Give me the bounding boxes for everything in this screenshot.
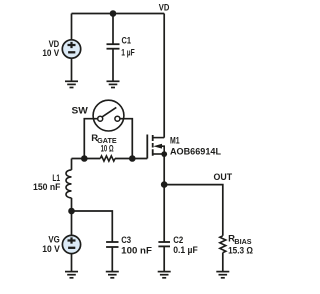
inductor L1 <box>66 170 72 198</box>
svg-text:150 nF: 150 nF <box>33 182 61 193</box>
wire C2 to ground <box>163 246 165 271</box>
transistor M1 body arrow <box>153 144 162 149</box>
wire node to C3 <box>72 211 113 242</box>
wire gate rail right <box>115 158 147 160</box>
voltage source VD <box>62 40 80 58</box>
ground (C3) <box>106 272 119 278</box>
wire VD source drop <box>71 14 73 40</box>
switch SW <box>93 100 124 131</box>
svg-text:VD: VD <box>159 3 170 14</box>
wire source to C2 <box>163 154 165 242</box>
wire L1 bottom to node <box>71 198 73 236</box>
svg-text:10 V: 10 V <box>42 244 60 255</box>
node VD tap <box>110 10 117 17</box>
wire switch left branch <box>84 119 100 159</box>
svg-text:OUT: OUT <box>214 172 233 183</box>
svg-text:15.3 Ω: 15.3 Ω <box>228 245 253 256</box>
svg-text:10 V: 10 V <box>42 48 59 59</box>
transistor M1 (NMOS) <box>147 135 164 159</box>
svg-text:M1: M1 <box>170 136 180 147</box>
ground (C2) <box>158 272 171 278</box>
node gate right <box>129 155 136 162</box>
node VG-L1-C3 <box>68 208 75 215</box>
svg-text:10 Ω: 10 Ω <box>101 144 114 155</box>
voltage source VG <box>62 235 80 253</box>
wire L1 top <box>71 159 73 170</box>
node gate left <box>81 155 88 162</box>
wire C1 branch <box>112 14 114 45</box>
wire right rail drain <box>163 14 165 138</box>
wire RBIAS to ground <box>222 253 224 272</box>
ground (C1) <box>107 81 120 87</box>
resistor RBIAS <box>220 236 226 253</box>
node M1 source-body <box>161 151 167 157</box>
svg-text:0.1 µF: 0.1 µF <box>173 245 198 256</box>
wire VG to ground <box>71 254 73 272</box>
capacitor C1 <box>107 44 120 49</box>
wire gate rail left <box>72 158 101 160</box>
wire OUT <box>164 185 223 236</box>
ground (VD) <box>65 81 78 87</box>
wire switch right branch <box>117 119 132 159</box>
svg-text:100 nF: 100 nF <box>121 245 152 256</box>
wire C3 to ground <box>111 247 113 272</box>
ground (VG) <box>65 272 78 278</box>
svg-text:C2: C2 <box>173 235 183 246</box>
svg-text:1 µF: 1 µF <box>121 48 135 59</box>
capacitor C2 <box>158 242 170 246</box>
wire top rail VD <box>72 13 165 15</box>
wire C1 to ground <box>112 49 114 82</box>
svg-text:SW: SW <box>72 106 88 117</box>
capacitor C3 <box>106 242 118 247</box>
svg-text:C1: C1 <box>122 35 132 46</box>
ground (RBIAS) <box>216 272 229 278</box>
resistor RGATE <box>100 156 115 161</box>
svg-text:AOB66914L: AOB66914L <box>170 146 221 157</box>
node OUT junction <box>161 181 168 188</box>
wire VD source to ground <box>71 58 73 81</box>
